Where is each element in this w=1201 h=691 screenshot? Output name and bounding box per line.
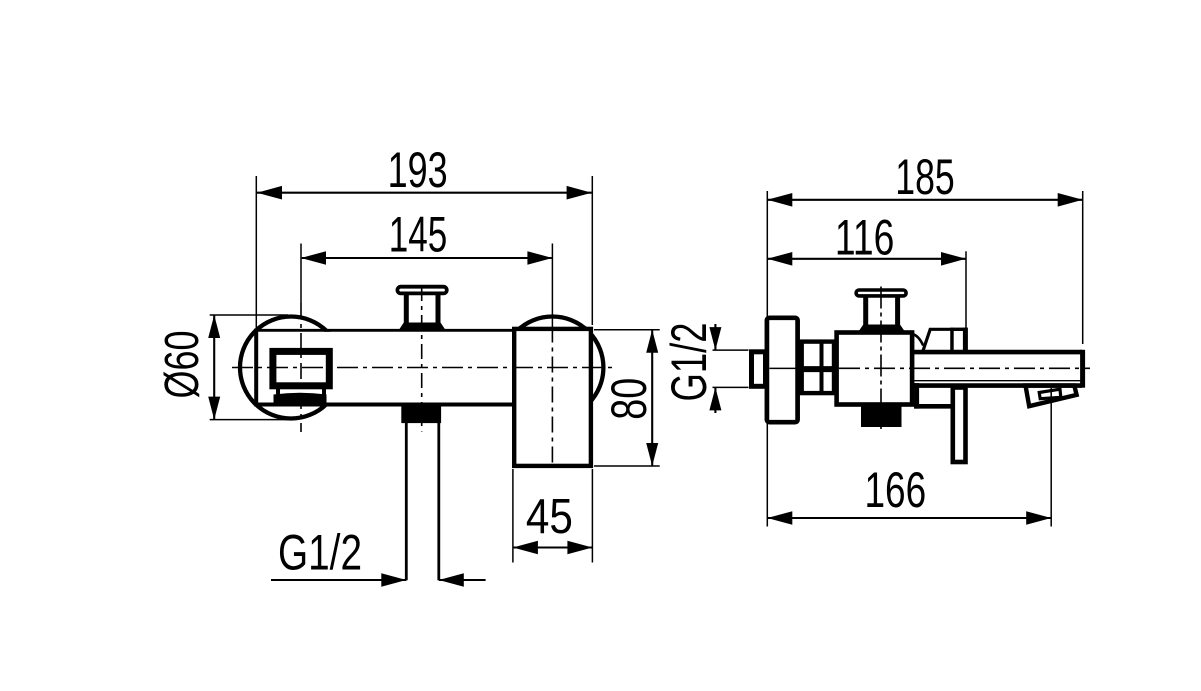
centerline handle vertical right (880, 287, 882, 430)
escutcheon circle right (501, 317, 603, 419)
spout outlet (1026, 386, 1077, 407)
handle stem right (863, 297, 868, 325)
plate centerline (770, 367, 799, 369)
dimension 193 (255, 176, 257, 328)
centerline handle/pipe vertical (421, 286, 423, 432)
handle cap right (856, 290, 906, 296)
handle base flare (398, 323, 447, 332)
check valve nut (952, 329, 965, 352)
svg-text:185: 185 (895, 149, 955, 205)
inlet nipple (752, 352, 766, 387)
escutcheon circle left (240, 317, 342, 419)
dimension 116 (965, 251, 967, 330)
svg-text:45: 45 (526, 490, 573, 544)
diverter rod (953, 388, 966, 463)
spout (273, 351, 329, 385)
dimension 45 (512, 469, 514, 563)
spout tube (914, 354, 1080, 383)
check valve curve (912, 334, 924, 346)
bottom pipe (405, 421, 408, 580)
dimension 185 (766, 191, 768, 527)
svg-text:145: 145 (389, 207, 448, 263)
svg-text:80: 80 (601, 378, 657, 420)
centerline horizontal left view (232, 367, 613, 369)
shower holder rect (514, 329, 591, 466)
centerline horizontal right (839, 367, 1090, 369)
centerline spout port vertical (300, 244, 302, 304)
check valve body (923, 329, 952, 352)
valve body (837, 333, 913, 405)
pipe connector black (401, 403, 441, 423)
dimension 166 (1050, 388, 1052, 527)
handle cap (397, 287, 446, 294)
mixer body (255, 332, 516, 404)
svg-text:G1/2: G1/2 (278, 525, 362, 581)
dimension 145 (302, 257, 552, 259)
svg-text:G1/2: G1/2 (661, 323, 717, 402)
svg-text:Ø60: Ø60 (156, 331, 209, 399)
dimension 80 (594, 329, 660, 331)
G1/2 ticks (713, 349, 749, 351)
dimension G1/2 left (271, 579, 406, 581)
handle stem (404, 295, 409, 324)
wall plate (767, 318, 798, 422)
centerline holder vertical (551, 244, 553, 327)
dimension D60 (210, 314, 288, 316)
diverter bracket (914, 383, 950, 404)
aerator (276, 389, 280, 395)
adapter nut (802, 342, 834, 394)
handle base flare right (858, 325, 906, 333)
svg-text:166: 166 (864, 462, 926, 518)
svg-text:193: 193 (388, 142, 448, 198)
body connector black (861, 404, 902, 427)
svg-text:116: 116 (835, 210, 894, 266)
tube inner line (913, 380, 1082, 382)
dimension G1/2 right (714, 324, 716, 350)
